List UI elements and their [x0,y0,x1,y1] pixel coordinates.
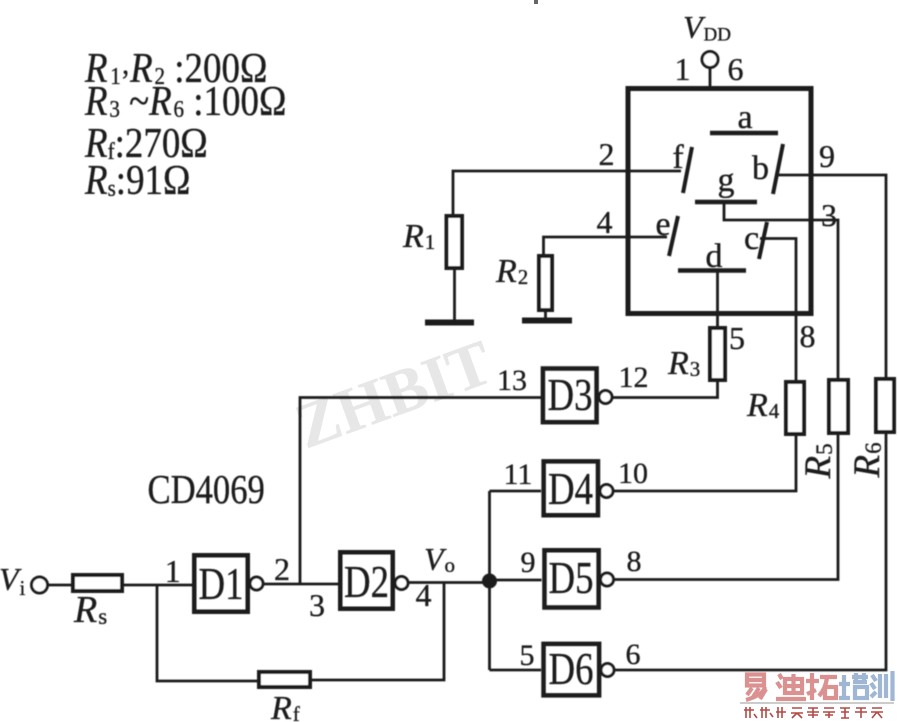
svg-text:9: 9 [819,138,835,174]
svg-text:g: g [718,162,735,199]
svg-text:4: 4 [597,204,613,240]
svg-text:VDD: VDD [683,9,731,46]
svg-text:13: 13 [497,364,527,397]
svg-text:5: 5 [729,320,745,356]
svg-text:3: 3 [821,197,837,233]
svg-text:Vi: Vi [0,561,26,600]
svg-text:6: 6 [626,638,641,671]
svg-text:R2: R2 [495,253,528,290]
svg-text:c: c [744,220,759,257]
svg-text:11: 11 [504,458,533,491]
svg-text:D4: D4 [548,464,593,515]
svg-text:5: 5 [520,639,535,672]
svg-text:R4: R4 [746,387,780,424]
svg-text:b: b [752,150,769,187]
svg-text:Rs:91Ω: Rs:91Ω [84,157,190,204]
svg-text:R6: R6 [847,442,888,478]
svg-text:10: 10 [618,457,648,490]
svg-text:Vo: Vo [424,541,455,577]
svg-text:f: f [672,139,684,176]
svg-text:ZHBIT: ZHBIT [286,326,501,462]
svg-text:D3: D3 [548,370,593,421]
svg-text:8: 8 [800,318,816,354]
svg-text:e: e [655,206,670,243]
svg-text:6: 6 [728,51,744,87]
svg-text:2: 2 [599,136,615,172]
svg-text:D1: D1 [199,559,244,610]
svg-text:R1: R1 [402,218,435,255]
svg-text:D5: D5 [549,553,594,604]
svg-text:R3: R3 [667,345,700,382]
svg-text:a: a [737,99,752,136]
svg-text:2: 2 [274,551,290,587]
svg-text:D2: D2 [344,557,389,608]
svg-text:R5: R5 [798,443,839,479]
svg-text:9: 9 [521,546,536,579]
svg-text:CD4069: CD4069 [148,467,265,512]
svg-text:d: d [706,238,723,275]
svg-text:3: 3 [309,587,325,623]
svg-text:4: 4 [416,577,432,613]
svg-text:Rf: Rf [270,690,300,722]
svg-text:8: 8 [627,545,642,578]
svg-text:1: 1 [675,51,691,87]
svg-text:12: 12 [619,361,649,394]
svg-text:1: 1 [165,553,181,589]
svg-text:D6: D6 [549,644,594,695]
svg-text:Rs: Rs [73,589,107,631]
